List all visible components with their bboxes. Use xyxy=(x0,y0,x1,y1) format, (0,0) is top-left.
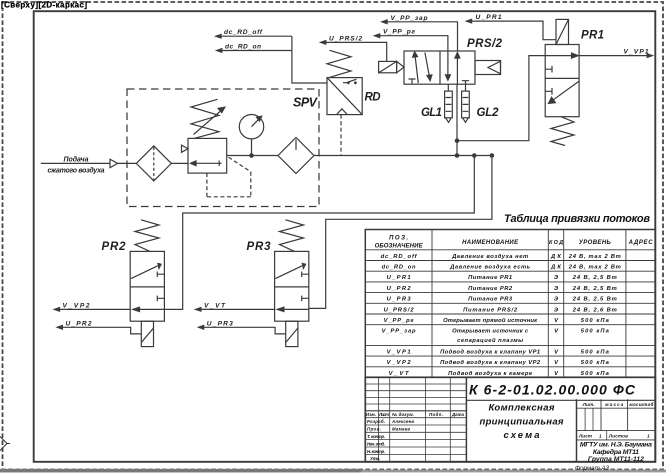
PRS/2 left box arrows xyxy=(409,52,432,84)
svg-text:V_VP2: V_VP2 xyxy=(387,360,412,366)
dc_RD_on signal xyxy=(217,44,292,53)
svg-text:Питание PRS/2: Питание PRS/2 xyxy=(463,307,518,313)
V_VP1 output xyxy=(579,48,652,57)
RD pilot dashed line xyxy=(340,115,342,156)
supply wire xyxy=(41,162,137,164)
svg-text:сжатого воздуха: сжатого воздуха xyxy=(48,166,105,174)
svg-text:24 В, 2,5 Вт: 24 В, 2,5 Вт xyxy=(572,286,617,292)
svg-text:GL2: GL2 xyxy=(477,107,500,119)
PRS/2 right box flow arrows xyxy=(445,51,469,91)
svg-text:24 В, 2,5 Вт: 24 В, 2,5 Вт xyxy=(572,275,617,281)
title block small headers xyxy=(578,401,654,439)
PR3 spring xyxy=(280,220,304,252)
wire filter to regulator xyxy=(171,162,188,164)
PR3 solenoid xyxy=(286,321,298,346)
supply inlet triangle xyxy=(110,159,118,167)
svg-text:ПОЗ.: ПОЗ. xyxy=(389,236,408,242)
svg-text:Т. контр.: Т. контр. xyxy=(367,434,385,439)
PRS/2 pneumatic pilot xyxy=(475,61,501,75)
RD pressure switch xyxy=(327,78,362,115)
PR2 spring xyxy=(135,220,159,252)
UCS axis icon xyxy=(0,437,10,451)
flow table title xyxy=(504,213,650,225)
flow table header text xyxy=(375,236,654,250)
svg-text:1: 1 xyxy=(647,434,650,439)
svg-text:U_PR1: U_PR1 xyxy=(387,275,411,281)
muffler GL2 xyxy=(462,91,470,122)
svg-text:dc_RD_on: dc_RD_on xyxy=(225,44,261,51)
dc_RD_off signal xyxy=(216,29,292,38)
viewport label [Sverhu][2D-karkas] xyxy=(1,1,90,10)
svg-text:№ докум.: № докум. xyxy=(392,412,414,417)
PR2 label xyxy=(102,241,127,253)
V_VT signal xyxy=(196,302,275,311)
svg-text:GL1: GL1 xyxy=(421,107,442,119)
supply label Podacha szhatogo vozduha xyxy=(48,155,105,174)
svg-text:1: 1 xyxy=(599,434,602,439)
PR1 label xyxy=(581,30,604,42)
svg-text:V_VP2: V_VP2 xyxy=(63,302,90,309)
U_PR2 signal xyxy=(57,320,141,334)
svg-text:Утв.: Утв. xyxy=(370,456,380,461)
svg-text:КОД: КОД xyxy=(549,240,563,246)
organization MGTU xyxy=(580,442,652,464)
svg-text:УРОВЕНЬ: УРОВЕНЬ xyxy=(579,240,612,246)
regulator spring xyxy=(191,99,219,138)
svg-text:Лист: Лист xyxy=(378,412,389,417)
V_VP2 signal xyxy=(54,302,130,311)
valve PR1 xyxy=(545,45,579,117)
PR2 solenoid xyxy=(141,321,153,346)
svg-text:PR2: PR2 xyxy=(102,241,127,253)
SPV label xyxy=(293,96,319,110)
svg-text:U_PRS/2: U_PRS/2 xyxy=(329,35,362,42)
svg-text:Питание PR2: Питание PR2 xyxy=(468,286,513,292)
svg-text:24 В, max 2 Вт: 24 В, max 2 Вт xyxy=(568,254,621,260)
svg-text:Открывает прямой источник: Открывает прямой источник xyxy=(443,317,538,324)
U_PR3 signal xyxy=(199,320,286,334)
svg-text:RD: RD xyxy=(365,92,381,104)
RD spring xyxy=(327,50,351,77)
svg-text:масштаб: масштаб xyxy=(629,401,653,407)
svg-text:Нач. отд.: Нач. отд. xyxy=(367,441,385,446)
GL2 label xyxy=(477,107,500,119)
svg-text:24 В, max 2 Вт: 24 В, max 2 Вт xyxy=(568,265,621,271)
svg-text:V_VT: V_VT xyxy=(389,371,409,377)
svg-text:U_PR2: U_PR2 xyxy=(66,320,92,327)
svg-text:МГТУ им. Н.Э. Баумана: МГТУ им. Н.Э. Баумана xyxy=(580,442,652,449)
svg-text:500 кПа: 500 кПа xyxy=(581,360,610,366)
svg-text:Подвод воздуха к клапану VP1: Подвод воздуха к клапану VP1 xyxy=(440,349,540,355)
pressure gauge MN xyxy=(239,115,263,156)
svg-text:[Сверху][2D-каркас]: [Сверху][2D-каркас] xyxy=(1,1,87,10)
wire dc lines to RD xyxy=(292,36,327,83)
valve PR3 xyxy=(275,251,309,321)
title block left rows text xyxy=(366,412,465,461)
V_PP_zar signal xyxy=(382,15,458,51)
svg-text:V_PP_зар: V_PP_зар xyxy=(382,329,416,335)
svg-text:сепарацией плазмы: сепарацией плазмы xyxy=(457,337,523,344)
SPV dashed enclosure xyxy=(127,89,319,207)
PRS/2 solenoid xyxy=(379,61,404,72)
svg-text:Дата: Дата xyxy=(451,412,465,417)
format A3 note xyxy=(575,465,609,472)
svg-text:НАИМЕНОВАНИЕ: НАИМЕНОВАНИЕ xyxy=(462,240,519,246)
PR3 label xyxy=(247,241,272,253)
svg-text:Мамаев: Мамаев xyxy=(392,427,410,432)
svg-text:Лист: Лист xyxy=(578,434,592,439)
svg-text:500 кПа: 500 кПа xyxy=(581,318,610,324)
svg-text:V_VP1: V_VP1 xyxy=(624,48,649,55)
svg-text:принципиальная: принципиальная xyxy=(480,417,564,428)
svg-text:Изм.: Изм. xyxy=(366,412,376,417)
doc number K6-2-01.02.00.000 FS xyxy=(469,382,636,398)
supply drop from PRS/2 xyxy=(456,84,458,155)
svg-text:Подп.: Подп. xyxy=(429,412,443,417)
svg-text:Комплексная: Комплексная xyxy=(489,403,555,414)
U_PR1 signal xyxy=(466,14,556,40)
svg-text:Лит.: Лит. xyxy=(582,402,595,407)
svg-text:24 В, 2,6 Вт: 24 В, 2,6 Вт xyxy=(572,307,617,313)
U_PRS/2 signal xyxy=(321,35,387,61)
svg-text:Давление воздуха есть: Давление воздуха есть xyxy=(449,265,531,271)
regulator adjust arrow xyxy=(194,107,225,134)
svg-text:масса: масса xyxy=(605,402,623,407)
junction dot gauge xyxy=(249,153,254,158)
svg-text:Открывает источник с: Открывает источник с xyxy=(452,329,529,335)
title block grid xyxy=(365,377,655,462)
svg-text:PR3: PR3 xyxy=(247,241,272,253)
node PRS/2 supply junction xyxy=(455,138,460,157)
svg-text:V_VP1: V_VP1 xyxy=(387,349,411,355)
RD label xyxy=(365,92,381,104)
svg-text:V_PP_рг: V_PP_рг xyxy=(383,29,415,36)
water separator WS xyxy=(278,138,314,174)
svg-text:V_PP_рг: V_PP_рг xyxy=(384,318,414,324)
wire branch B to PR3 xyxy=(309,156,492,309)
svg-text:U_PR1: U_PR1 xyxy=(476,14,502,21)
svg-text:U_PR3: U_PR3 xyxy=(207,320,233,327)
svg-text:V_PP_зар: V_PP_зар xyxy=(391,15,428,22)
svg-text:Кафедра МТ11: Кафедра МТ11 xyxy=(593,448,639,456)
PRS/2 valve body xyxy=(404,51,475,84)
svg-text:V_VT: V_VT xyxy=(204,302,226,309)
node branch B junction xyxy=(490,153,495,158)
svg-text:dc_RD_off: dc_RD_off xyxy=(224,29,263,36)
svg-text:Разраб.: Разраб. xyxy=(367,419,385,424)
svg-text:Пров.: Пров. xyxy=(367,427,381,432)
svg-text:Таблица привязки потоков: Таблица привязки потоков xyxy=(504,213,650,225)
svg-text:500 кПа: 500 кПа xyxy=(581,349,610,355)
svg-text:U_PR3: U_PR3 xyxy=(387,297,412,303)
svg-text:dc_RD_on: dc_RD_on xyxy=(382,265,416,271)
svg-text:U_PR2: U_PR2 xyxy=(387,286,412,292)
svg-text:АДРЕС: АДРЕС xyxy=(628,240,654,246)
svg-text:PR1: PR1 xyxy=(581,30,604,42)
PR1 spring xyxy=(551,117,574,146)
svg-text:Группа МТ11-112: Группа МТ11-112 xyxy=(588,456,644,463)
svg-text:Питание PR1: Питание PR1 xyxy=(468,275,512,281)
flow table grid xyxy=(365,230,655,378)
svg-text:Алексеев: Алексеев xyxy=(391,419,414,424)
node branch A junction xyxy=(472,153,477,158)
svg-text:SPV: SPV xyxy=(293,96,319,110)
svg-text:Листов: Листов xyxy=(608,434,628,439)
main flow wire xyxy=(314,155,492,157)
svg-text:500 кПа: 500 кПа xyxy=(581,329,610,335)
svg-text:24 В, 2,5 Вт: 24 В, 2,5 Вт xyxy=(572,297,617,303)
flow table rows text xyxy=(381,254,621,377)
svg-text:500 кПа: 500 кПа xyxy=(581,371,610,377)
GL1 label xyxy=(421,107,442,119)
svg-text:Питание PR3: Питание PR3 xyxy=(468,297,513,303)
svg-text:Формат А3: Формат А3 xyxy=(575,465,609,472)
pressure regulator RG xyxy=(182,138,227,173)
PR1 solenoid xyxy=(556,19,569,44)
svg-text:Подача: Подача xyxy=(64,155,89,163)
svg-text:Подвод воздуха к камере: Подвод воздуха к камере xyxy=(448,371,533,377)
wire branch A to PR2 xyxy=(164,156,474,310)
svg-text:PRS/2: PRS/2 xyxy=(467,38,503,50)
wire regulator to separator xyxy=(227,155,278,157)
valve PR2 xyxy=(130,251,164,321)
wire to PR1 xyxy=(457,56,545,141)
regulator pilot dashed loop xyxy=(207,157,251,197)
svg-text:Давление воздуха нет: Давление воздуха нет xyxy=(451,254,528,260)
svg-text:dc_RD_off: dc_RD_off xyxy=(381,254,418,260)
svg-text:U_PRS/2: U_PRS/2 xyxy=(384,307,415,313)
svg-text:ОБОЗНАЧЕНИЕ: ОБОЗНАЧЕНИЕ xyxy=(375,244,424,250)
muffler GL1 xyxy=(445,84,453,122)
svg-text:Подвод воздуха к клапану VP2: Подвод воздуха к клапану VP2 xyxy=(440,360,541,366)
doc name Kompleksnaya shema xyxy=(480,403,564,442)
svg-text:Н. контр.: Н. контр. xyxy=(367,449,385,454)
PRS/2 label xyxy=(467,38,503,50)
filter F xyxy=(136,146,171,181)
V_PP_rg signal xyxy=(375,29,448,51)
